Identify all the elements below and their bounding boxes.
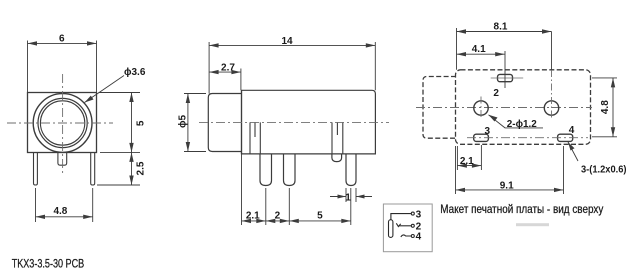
arrow phi5 bottom [186,142,190,152]
arrow 2m right [280,219,290,223]
arrow 2.1m left [242,219,252,223]
arrow 6 left [28,41,38,45]
bottom dim line [242,220,351,222]
svg-text:4: 4 [569,125,575,136]
pin 3 wire [391,214,411,220]
pin 4 circle [411,235,414,238]
svg-text:TKX3-3.5-30 PCB: TKX3-3.5-30 PCB [12,257,85,271]
vertical centerline [62,74,64,174]
leader phi3.6 [85,76,125,103]
arrow 2.1 right [472,163,482,167]
outer circle [33,94,92,153]
body outline [242,90,376,154]
svg-text:3: 3 [485,126,491,137]
arrow 9.1 left [456,188,466,192]
svg-text:2: 2 [275,210,281,221]
pcb body dashed rect [456,70,591,145]
svg-text:Макет печатной платы - вид све: Макет печатной платы - вид сверху [440,202,603,216]
texts right view [440,21,626,215]
pads centerline [467,137,588,139]
dim 14 line [209,44,375,46]
dim 8.1 line [457,28,552,70]
hole 1 [474,101,488,115]
centerline holes [416,107,592,109]
svg-text:2.1: 2.1 [246,210,260,221]
arrow phi5 top [186,94,190,104]
arrow 4.8 right [83,215,93,219]
arrow 2.1m right [256,219,266,223]
dim 2.7 line [209,69,241,91]
arrow 4.8 left [36,215,46,219]
svg-text:4.8: 4.8 [53,206,67,217]
svg-text:2-ϕ1.2: 2-ϕ1.2 [507,119,537,130]
arrow 4.8 top [611,78,615,88]
arrow leader pad4 [568,142,575,151]
bottom tab [58,153,67,166]
svg-text:ϕ5: ϕ5 [178,115,189,128]
arrow 4.1 left [457,52,467,56]
dim 2.1 ext+line [457,145,481,170]
arrow 14 left [209,43,219,47]
svg-text:ϕ3.6: ϕ3.6 [124,67,146,78]
arrow 5 bottom [129,143,133,153]
arrow 2.7 left [209,70,219,74]
pin C [346,154,356,186]
sleeve stadium [389,220,393,238]
right contact [332,122,343,153]
svg-text:5: 5 [317,210,323,221]
svg-text:5: 5 [136,120,147,126]
dim 4.8 line [36,216,93,218]
symbol box [383,204,432,252]
right leg [91,153,95,186]
svg-text:2.1: 2.1 [460,156,474,167]
arrow 1 left [338,195,347,199]
dim 5/2.5 extension lines [97,93,140,186]
svg-text:4: 4 [416,232,422,243]
dim 5/2.5 line [131,93,133,186]
hole2 vertical centerline [551,32,553,71]
pad 3 [474,134,489,141]
svg-text:9.1: 9.1 [500,180,514,191]
arrows right view [456,29,616,192]
arrow 8.1 right [542,29,552,33]
svg-text:6: 6 [59,34,65,45]
svg-text:1: 1 [345,192,351,203]
pad 4 [558,134,573,141]
svg-text:3-(1.2x0.6): 3-(1.2x0.6) [581,165,627,176]
arrow 1 right [356,195,365,199]
dim phi5 line [187,94,189,152]
dim phi5 ext lines [184,94,206,152]
arrow 2.1 left [457,163,467,167]
dim 6: line [28,42,97,44]
barrel outline [208,94,241,152]
dim 6: extension lines [28,41,97,93]
arrow 9.1 right [554,188,564,192]
stub [332,154,342,162]
dim 4.8 extension lines [36,188,93,222]
left leg [34,153,38,186]
pin 2 contact chevron [396,223,400,226]
dim 14 ext lines [209,42,375,94]
arrow 4.1 right [495,52,505,56]
middle circle [38,98,87,147]
arrow 2.5 top [129,152,133,162]
pin 3 circle [411,212,414,215]
dim 1 ext lines [346,188,356,202]
leader 2-phi1.2 [489,115,544,128]
pad 2 h-line [491,77,524,79]
svg-text:4.1: 4.1 [472,44,486,55]
arrows left view [28,41,134,219]
pad 2 v-line [504,51,506,88]
leader 3-(1.2x0.6) [568,142,578,161]
arrow phi3.6 [85,96,94,103]
texts left view [12,34,147,271]
arrow leader 1.2 [489,115,498,122]
svg-text:4.8: 4.8 [600,100,611,114]
pin 2 circle [411,224,414,227]
arrow 5m left [289,219,299,223]
arrow 2m left [266,219,276,223]
pin A [260,154,272,186]
arrow 6 right [87,41,97,45]
horizontal centerline [7,122,113,124]
svg-text:2.7: 2.7 [221,62,235,73]
svg-text:2: 2 [493,88,499,99]
arrow 5 top [129,93,133,103]
pin 4 squiggle [401,235,411,237]
svg-text:14: 14 [281,36,293,47]
dim 4.8 ext lines [592,78,617,137]
bottom dims ext lines [242,154,351,225]
left contact [250,122,260,153]
body square [28,93,97,153]
arrow 14 right [366,43,376,47]
arrow 4.8 bottom [611,127,615,137]
svg-text:8.1: 8.1 [494,21,508,32]
barrel junction line [241,90,243,154]
svg-text:3: 3 [416,209,422,220]
arrow 5m right [341,219,351,223]
hole 1 vertical tick [480,97,482,120]
pin 2 wire [399,225,411,227]
dim 4.1 line [457,53,505,55]
faint scan smudge [516,223,549,226]
centerline [199,121,389,123]
svg-text:2.5: 2.5 [136,161,147,175]
arrow 2.5 bottom [129,176,133,186]
dim 4.8 line [612,78,614,137]
texts middle view [178,36,352,221]
inner circle [40,101,84,145]
pcb barrel dashed [423,77,456,139]
hole 2 [544,101,558,115]
dim 1 arrow lines [330,196,372,198]
pad 2 [498,74,513,81]
arrow 2.7 right [231,70,241,74]
pin B [284,154,296,186]
arrow 8.1 left [457,29,467,33]
arrows middle view [186,43,376,223]
dim 9.1 ext+line [456,146,564,194]
